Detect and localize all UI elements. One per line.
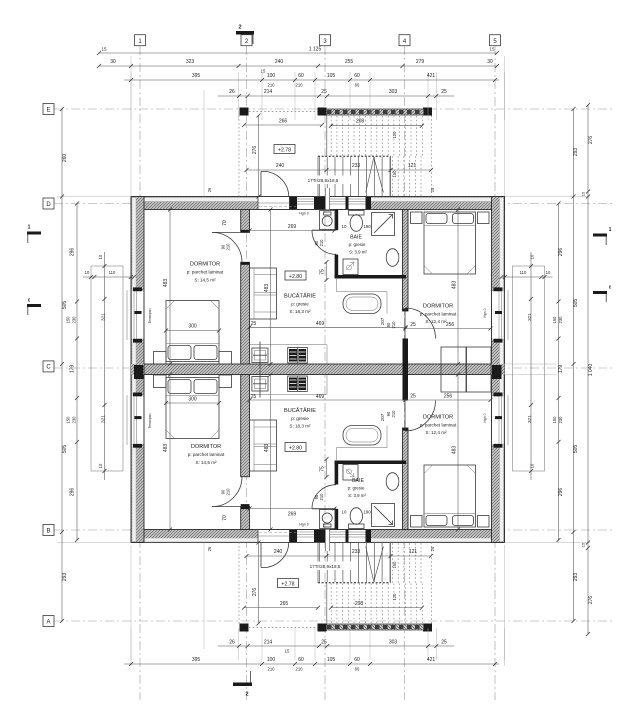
extension lines top	[130, 72, 132, 120]
svg-text:p: parchet laminat: p: parchet laminat	[420, 312, 457, 317]
svg-text:S: 12,4 m²: S: 12,4 m²	[425, 319, 447, 324]
window top wall b	[327, 197, 346, 209]
window jamb cap left y291	[133, 287, 142, 291]
porch edge dotted east	[431, 116, 433, 197]
svg-text:210: 210	[319, 493, 324, 501]
svg-text:p: parchet laminat: p: parchet laminat	[187, 270, 224, 275]
svg-text:60: 60	[298, 73, 304, 79]
bed right room	[424, 212, 476, 274]
pier top wall d	[366, 197, 372, 209]
svg-text:A: A	[46, 619, 50, 625]
grid axis line 5	[494, 46, 496, 700]
svg-text:483: 483	[452, 446, 458, 455]
grid bubble 1	[135, 35, 146, 46]
grid bubble E	[43, 104, 54, 115]
exterior wall bottom	[131, 530, 505, 543]
svg-text:256: 256	[444, 394, 453, 400]
bathtub	[343, 294, 381, 314]
svg-text:75: 75	[320, 466, 326, 472]
svg-text:276: 276	[588, 136, 594, 145]
svg-text:S: 3,9 m²: S: 3,9 m²	[349, 250, 367, 255]
svg-text:255: 255	[345, 59, 354, 65]
svg-text:10: 10	[342, 510, 347, 515]
svg-text:26: 26	[207, 546, 212, 551]
party wall end column left	[134, 365, 144, 379]
dim 265 porch bottom	[244, 607, 318, 609]
svg-text:276: 276	[588, 596, 594, 605]
bathtub niche outline	[337, 279, 388, 314]
grid axis line 4	[404, 46, 406, 700]
dim chain right outer	[587, 105, 589, 634]
window overhang rect left	[91, 266, 123, 471]
svg-text:S: 14,5 m²: S: 14,5 m²	[195, 460, 217, 465]
svg-text:S: 12,4 m²: S: 12,4 m²	[425, 430, 447, 435]
svg-text:p: parchet laminat: p: parchet laminat	[420, 423, 457, 428]
svg-text:+2.78: +2.78	[278, 147, 291, 153]
svg-text:Hgn 0: Hgn 0	[299, 212, 309, 216]
svg-text:395: 395	[192, 657, 201, 663]
bath partition wall left upper	[335, 210, 339, 231]
svg-text:120: 120	[392, 593, 397, 601]
door jamb caps grid4 wall	[403, 309, 409, 312]
svg-text:100: 100	[267, 657, 276, 663]
dim 10 110 10 right	[502, 276, 553, 278]
dim 469 kitchen top	[250, 326, 406, 328]
svg-text:15: 15	[490, 47, 495, 52]
party wall end cap left	[131, 364, 144, 375]
partition wall grid2 upper stub	[241, 210, 250, 233]
svg-text:240: 240	[274, 549, 283, 555]
porch column mid	[318, 108, 327, 116]
svg-text:150: 150	[552, 316, 557, 324]
svg-text:25: 25	[410, 394, 416, 400]
grid axis line 1	[139, 46, 141, 700]
svg-text:110: 110	[520, 270, 527, 275]
toilet bowl	[350, 215, 362, 232]
svg-text:505: 505	[62, 301, 68, 310]
entry door opening top wall	[258, 197, 290, 209]
dim 240 233 121 porch top	[247, 169, 432, 171]
svg-text:421: 421	[427, 73, 436, 79]
svg-text:296: 296	[70, 488, 76, 497]
svg-text:230: 230	[558, 416, 563, 424]
nightstand left room east	[219, 352, 232, 365]
svg-text:207: 207	[380, 413, 385, 421]
svg-text:120: 120	[392, 131, 397, 139]
dim chain right inner	[558, 204, 560, 541]
svg-text:210: 210	[296, 83, 304, 88]
kitchen stove unit	[288, 348, 308, 364]
dim 321 chain right	[530, 252, 532, 480]
svg-text:210: 210	[226, 488, 231, 496]
svg-text:15: 15	[581, 542, 586, 547]
window top wall c	[349, 197, 366, 209]
dim chain left inner	[76, 204, 78, 541]
wardrobe right rooms b	[467, 347, 492, 392]
window mullion left y291	[135, 311, 142, 314]
svg-text:321: 321	[101, 415, 106, 423]
window mullion right y291	[495, 311, 502, 314]
dim 300 bed bottom	[166, 402, 219, 404]
svg-text:10: 10	[530, 463, 535, 468]
svg-text:230: 230	[72, 316, 77, 324]
porch edge dotted north	[249, 111, 318, 113]
partition wall grid4 upper	[403, 210, 409, 312]
dim 483 left room bottom	[169, 375, 171, 530]
door arc bathroom	[312, 230, 336, 254]
svg-text:421: 421	[427, 657, 436, 663]
svg-text:DORMITOR: DORMITOR	[423, 415, 453, 421]
svg-text:214: 214	[264, 640, 273, 646]
extension lines bottom	[130, 628, 132, 660]
svg-text:+2.80: +2.80	[289, 445, 302, 451]
svg-text:30: 30	[487, 59, 493, 65]
svg-text:293: 293	[573, 573, 579, 582]
nightstand right room east	[478, 212, 490, 224]
svg-text:150: 150	[66, 416, 71, 424]
svg-text:25: 25	[251, 321, 257, 327]
svg-text:105: 105	[327, 73, 336, 79]
svg-text:15: 15	[102, 47, 107, 52]
svg-text:10: 10	[98, 463, 103, 468]
svg-text:230: 230	[72, 416, 77, 424]
bath partition wall bottom	[335, 275, 407, 279]
grid axis line A	[54, 620, 612, 622]
svg-text:321: 321	[527, 313, 532, 321]
nightstand right room west	[411, 212, 423, 224]
porch column west	[240, 108, 249, 116]
svg-text:269: 269	[288, 224, 297, 230]
svg-text:25: 25	[441, 89, 447, 95]
svg-text:303: 303	[389, 640, 398, 646]
window right wall y396	[492, 396, 504, 444]
grid axis line C	[54, 367, 612, 369]
svg-text:321: 321	[101, 313, 106, 321]
svg-text:25: 25	[251, 394, 257, 400]
bed left room	[166, 301, 219, 362]
dim 483 right room bottom	[457, 375, 459, 530]
svg-text:276: 276	[252, 588, 258, 597]
svg-text:10: 10	[85, 270, 90, 275]
svg-text:DORMITOR: DORMITOR	[423, 304, 453, 310]
bed left room sheet line	[166, 343, 219, 345]
wardrobe right rooms a	[441, 347, 466, 392]
svg-text:214: 214	[264, 89, 273, 95]
svg-text:1: 1	[609, 227, 612, 233]
bed right room sheet line	[424, 225, 476, 227]
svg-text:26: 26	[207, 187, 212, 192]
svg-text:S: 3,9 m²: S: 3,9 m²	[348, 493, 366, 498]
svg-text:207: 207	[380, 317, 385, 325]
svg-text:483: 483	[452, 281, 458, 290]
svg-text:303: 303	[389, 89, 398, 95]
svg-text:150: 150	[66, 316, 71, 324]
door jamb caps grid2 wall	[241, 230, 250, 233]
svg-text:60: 60	[355, 667, 360, 672]
svg-text:25: 25	[430, 546, 435, 551]
exterior wall top	[131, 197, 505, 210]
dim 269 top hall	[250, 230, 335, 232]
svg-text:260: 260	[62, 154, 68, 163]
svg-text:p: gresie: p: gresie	[291, 302, 309, 307]
svg-text:483: 483	[264, 284, 270, 293]
dim 75 hall width bottom	[326, 459, 328, 477]
porch parapet hatched strip	[327, 109, 424, 115]
svg-text:483: 483	[163, 444, 169, 453]
svg-text:233: 233	[352, 549, 361, 555]
svg-text:BUCĂTĂRIE: BUCĂTĂRIE	[284, 407, 316, 414]
window jamb cap right y291	[494, 287, 503, 291]
dim 256 right room bottom	[406, 399, 491, 401]
svg-text:+2.78: +2.78	[281, 581, 294, 587]
svg-text:10: 10	[342, 224, 347, 229]
dim row 26 214 25 303 25 bottom	[218, 645, 454, 647]
svg-text:296: 296	[558, 488, 564, 497]
svg-text:Termopan: Termopan	[148, 308, 152, 323]
entry door opening bottom wall	[258, 530, 290, 542]
party wall end column right	[492, 365, 502, 379]
exterior wall right	[492, 197, 505, 543]
svg-text:121: 121	[409, 549, 418, 555]
svg-text:17Tr/28,9x18,5: 17Tr/28,9x18,5	[310, 564, 341, 569]
svg-text:210: 210	[391, 321, 396, 329]
svg-text:70: 70	[222, 515, 228, 521]
pier bottom wall a	[290, 530, 298, 542]
window mullion left y396	[135, 416, 142, 419]
svg-text:25: 25	[321, 89, 327, 95]
washing machine	[320, 211, 336, 230]
svg-text:26: 26	[229, 89, 235, 95]
mirrored lower unit	[154, 370, 490, 632]
svg-text:Hgn 0: Hgn 0	[483, 308, 487, 317]
svg-text:60: 60	[355, 83, 360, 88]
window bottom wall a	[297, 530, 314, 542]
stair landing edge	[318, 155, 391, 157]
window mullion right y396	[495, 416, 502, 419]
svg-text:208: 208	[356, 119, 365, 125]
dim 483 right room top	[457, 210, 459, 365]
svg-text:60: 60	[354, 657, 360, 663]
svg-text:265: 265	[280, 601, 289, 607]
svg-text:210: 210	[268, 83, 276, 88]
pillow left room b	[194, 346, 217, 360]
svg-text:296: 296	[558, 248, 564, 257]
svg-text:Termopan: Termopan	[148, 413, 152, 428]
svg-text:BAIE: BAIE	[352, 478, 364, 484]
svg-text:210: 210	[391, 410, 396, 418]
svg-text:505: 505	[573, 299, 579, 308]
svg-text:DORMITOR: DORMITOR	[191, 444, 221, 450]
svg-text:208: 208	[355, 601, 364, 607]
dim 10 110 10 left	[83, 276, 134, 278]
pillow right room a	[426, 214, 447, 224]
svg-text:10: 10	[530, 254, 535, 259]
grid axis line 3	[324, 46, 326, 700]
window bottom wall c	[349, 530, 366, 542]
dim 469 kitchen bottom	[250, 399, 406, 401]
dim chain left outer	[61, 109, 63, 621]
svg-text:17Tr/28,9x18,5: 17Tr/28,9x18,5	[308, 178, 339, 183]
svg-text:p: gresie: p: gresie	[348, 486, 365, 491]
svg-text:233: 233	[352, 163, 361, 169]
svg-text:483: 483	[264, 444, 270, 453]
window left wall y291	[132, 291, 144, 339]
svg-text:296: 296	[70, 248, 76, 257]
svg-text:25: 25	[321, 640, 327, 646]
door arc bedroom left	[212, 232, 242, 262]
stair enclosure west edge	[326, 116, 328, 157]
pier top wall a	[290, 197, 298, 209]
svg-text:26: 26	[229, 640, 235, 646]
pillow right room b	[453, 214, 474, 224]
svg-text:179: 179	[70, 365, 76, 374]
svg-text:395: 395	[192, 73, 201, 79]
dim 75 hall width top	[326, 262, 328, 280]
svg-text:321: 321	[527, 415, 532, 423]
svg-text:190: 190	[363, 224, 371, 229]
svg-text:279: 279	[416, 59, 425, 65]
svg-text:505: 505	[573, 445, 579, 454]
window left wall y396	[132, 396, 144, 444]
svg-text:276: 276	[252, 146, 258, 155]
svg-text:25: 25	[430, 187, 435, 192]
party wall end cap right	[492, 364, 505, 375]
kitchen sink unit with cross	[252, 348, 268, 363]
partition wall grid2 middle	[241, 262, 250, 476]
svg-text:S: 18,3 m²: S: 18,3 m²	[289, 309, 311, 314]
svg-text:230: 230	[558, 316, 563, 324]
entry door leaf and arc	[260, 172, 262, 197]
pier bottom wall b	[314, 530, 327, 542]
svg-text:E: E	[46, 107, 50, 113]
kitchen counter front edge at party wall	[250, 344, 328, 346]
pier bottom wall d	[366, 530, 372, 542]
svg-text:240: 240	[275, 59, 284, 65]
bed left room fold corners	[166, 301, 219, 310]
grid bubble 2	[241, 35, 252, 46]
svg-text:Hgn 0: Hgn 0	[483, 413, 487, 422]
dim row 395 100 60 105 60 421 top	[124, 79, 499, 81]
nightstand left room west	[154, 352, 167, 365]
pillow left room a	[168, 346, 191, 360]
svg-text:190: 190	[363, 510, 371, 515]
dim 321 chain left	[104, 252, 106, 480]
grid bubble B	[43, 525, 54, 536]
partition wall grid4 lower	[403, 428, 409, 530]
svg-text:266: 266	[279, 119, 288, 125]
svg-text:15: 15	[581, 191, 586, 196]
dim 256 right room top	[406, 328, 491, 330]
svg-text:D: D	[46, 202, 51, 208]
svg-text:505: 505	[62, 445, 68, 454]
bathroom sink	[386, 249, 399, 267]
svg-text:469: 469	[316, 394, 325, 400]
svg-text:70: 70	[222, 220, 228, 226]
window top wall a	[297, 197, 314, 209]
exterior wall left	[131, 197, 144, 543]
party wall on axis C	[144, 364, 492, 375]
svg-text:300: 300	[188, 324, 197, 330]
kitchen counter along wall	[250, 268, 277, 319]
level box +2.80 kitchen bottom	[285, 443, 306, 452]
svg-text:25: 25	[441, 640, 447, 646]
svg-text:S: 14,5 m²: S: 14,5 m²	[194, 278, 216, 283]
svg-text:293: 293	[573, 148, 579, 157]
grid bubble 3	[320, 35, 331, 46]
window overhang rect right	[513, 266, 545, 471]
window jamb cap left y396	[133, 393, 142, 397]
dim 276 porch height bottom	[258, 543, 260, 624]
svg-text:15: 15	[261, 69, 266, 74]
svg-text:179: 179	[558, 365, 564, 374]
svg-text:p: parchet laminat: p: parchet laminat	[188, 452, 225, 457]
dim chain right middle	[573, 109, 575, 621]
partition wall grid2 lower stub	[241, 507, 250, 530]
svg-text:60: 60	[354, 73, 360, 79]
grid axis line E	[54, 108, 612, 110]
grid bubble A	[43, 616, 54, 627]
dim 300 bed top	[166, 330, 219, 332]
svg-text:BAIE: BAIE	[350, 235, 362, 241]
pier top wall c	[346, 197, 349, 209]
svg-text:S: 18,3 m²: S: 18,3 m²	[289, 424, 311, 429]
dim row 30 323 240 255 279 30 top	[99, 65, 497, 67]
terrace decking dotted lines	[330, 116, 332, 156]
svg-text:110: 110	[109, 270, 116, 275]
svg-text:60: 60	[298, 657, 304, 663]
partition wall grid4 center stub	[403, 339, 409, 401]
svg-text:75: 75	[320, 269, 326, 275]
svg-text:p: gresie: p: gresie	[291, 416, 309, 421]
grid bubble C	[43, 361, 54, 372]
svg-text:DORMITOR: DORMITOR	[190, 262, 220, 268]
dim 269 bottom hall	[250, 508, 335, 510]
grid axis line D	[54, 203, 612, 205]
svg-text:2: 2	[245, 692, 248, 698]
grid bubble 4	[399, 35, 410, 46]
porch edge dotted west	[238, 116, 240, 197]
section marker 2 bottom	[233, 683, 252, 687]
svg-text:1 040: 1 040	[588, 364, 594, 377]
svg-text:210: 210	[226, 243, 231, 251]
pier bottom wall c	[346, 530, 349, 542]
svg-text:483: 483	[163, 279, 169, 288]
svg-text:100: 100	[267, 73, 276, 79]
bath partition wall left lower	[335, 255, 339, 279]
svg-text:150: 150	[392, 561, 397, 569]
boiler	[343, 259, 358, 275]
stair label top	[296, 176, 351, 185]
dim 266 porch top	[244, 124, 322, 126]
level box +2.78 porch bottom	[278, 579, 299, 588]
svg-text:1: 1	[28, 225, 31, 231]
stair flight boundary	[317, 156, 319, 196]
svg-text:269: 269	[288, 512, 297, 518]
dim row overall 1125 top	[99, 52, 497, 54]
grid axis line 2	[246, 46, 248, 700]
stair label bottom	[298, 562, 353, 571]
dim 240 233 121 porch bottom	[247, 555, 432, 557]
svg-text:10: 10	[98, 254, 103, 259]
svg-text:+2.80: +2.80	[289, 274, 302, 280]
svg-text:210: 210	[319, 239, 324, 247]
window jamb cap right y396	[494, 393, 503, 397]
dim row 26 214 25 303 25 top	[218, 95, 454, 97]
bed right room fold corners	[424, 266, 476, 275]
dim 483 left room top	[169, 210, 171, 365]
grid bubble 5	[490, 35, 501, 46]
dim 208 stairs top	[331, 125, 422, 127]
